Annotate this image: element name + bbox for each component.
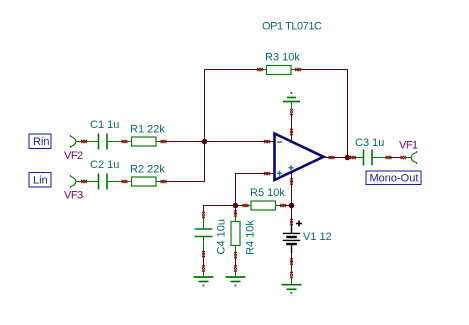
svg-text:R2 22k: R2 22k <box>130 164 165 176</box>
node left (bias) <box>233 203 239 209</box>
wire feedback left vertical <box>204 70 206 142</box>
wire left node to C4 <box>204 206 236 213</box>
wire feedback top right <box>300 69 348 71</box>
svg-text:VF1: VF1 <box>399 140 418 152</box>
connector VF2 <box>70 135 97 147</box>
wire battery to ground <box>291 253 293 273</box>
capacitor C2 <box>99 174 131 190</box>
wire node A to inverting input <box>205 141 275 143</box>
resistor R3 <box>257 66 301 75</box>
svg-text:C4 10u: C4 10u <box>216 219 228 254</box>
svg-text:VF3: VF3 <box>64 190 83 202</box>
node A <box>202 139 208 145</box>
ground under C4 <box>194 270 214 287</box>
ground under battery <box>282 277 302 295</box>
op-amp OP1 <box>275 134 324 181</box>
svg-text:Lin: Lin <box>33 175 48 187</box>
svg-text:R3 10k: R3 10k <box>265 52 300 64</box>
svg-text:R4 10k: R4 10k <box>245 220 257 255</box>
ground under R4 <box>226 270 246 287</box>
battery V1 <box>283 224 300 253</box>
svg-text:R1 22k: R1 22k <box>130 124 165 136</box>
battery plus sign <box>296 221 302 227</box>
wire top ground to op-amp V pin <box>291 114 293 135</box>
svg-text:C2 1u: C2 1u <box>90 159 119 171</box>
wire right node to battery <box>291 206 293 225</box>
resistor R1 <box>132 137 167 146</box>
wire feedback top left <box>205 69 259 71</box>
resistor R4 <box>231 208 240 258</box>
svg-text:V1 12: V1 12 <box>303 231 332 243</box>
resistor R5 <box>243 201 286 210</box>
Rin box <box>29 134 51 149</box>
capacitor C1 <box>99 134 131 150</box>
Mono-Out box <box>366 171 421 185</box>
svg-text:VF2: VF2 <box>64 150 83 162</box>
wire op-amp V- pin to right node <box>291 173 293 206</box>
svg-text:R5 10k: R5 10k <box>250 187 285 199</box>
wire feedback right vertical <box>347 70 349 158</box>
ground (top, above op-amp) <box>283 92 300 115</box>
svg-text:Mono-Out: Mono-Out <box>370 173 419 185</box>
wire R1 to node A <box>166 141 205 143</box>
wire R4 to ground <box>235 257 237 268</box>
capacitor C4 <box>195 217 213 257</box>
wire R5 to right node <box>285 205 292 207</box>
wire C4 to ground <box>203 256 205 268</box>
node right (supply) <box>289 203 295 209</box>
wire C3 to VF1 <box>390 157 402 159</box>
wire left node to R5 <box>236 205 245 207</box>
svg-text:Rin: Rin <box>33 136 50 148</box>
capacitor C3 <box>350 150 391 166</box>
svg-text:C3 1u: C3 1u <box>355 137 384 149</box>
node output <box>345 155 351 161</box>
resistor R2 <box>132 177 167 186</box>
svg-text:OP1 TL071C: OP1 TL071C <box>262 21 322 33</box>
wire non-inverting input <box>236 174 275 206</box>
connector VF3 <box>70 175 97 187</box>
Lin box <box>29 173 51 188</box>
wire op-amp output <box>324 157 348 159</box>
svg-text:C1 1u: C1 1u <box>90 119 119 131</box>
wire R2 to node A <box>166 142 205 182</box>
connector VF1 <box>401 151 417 163</box>
